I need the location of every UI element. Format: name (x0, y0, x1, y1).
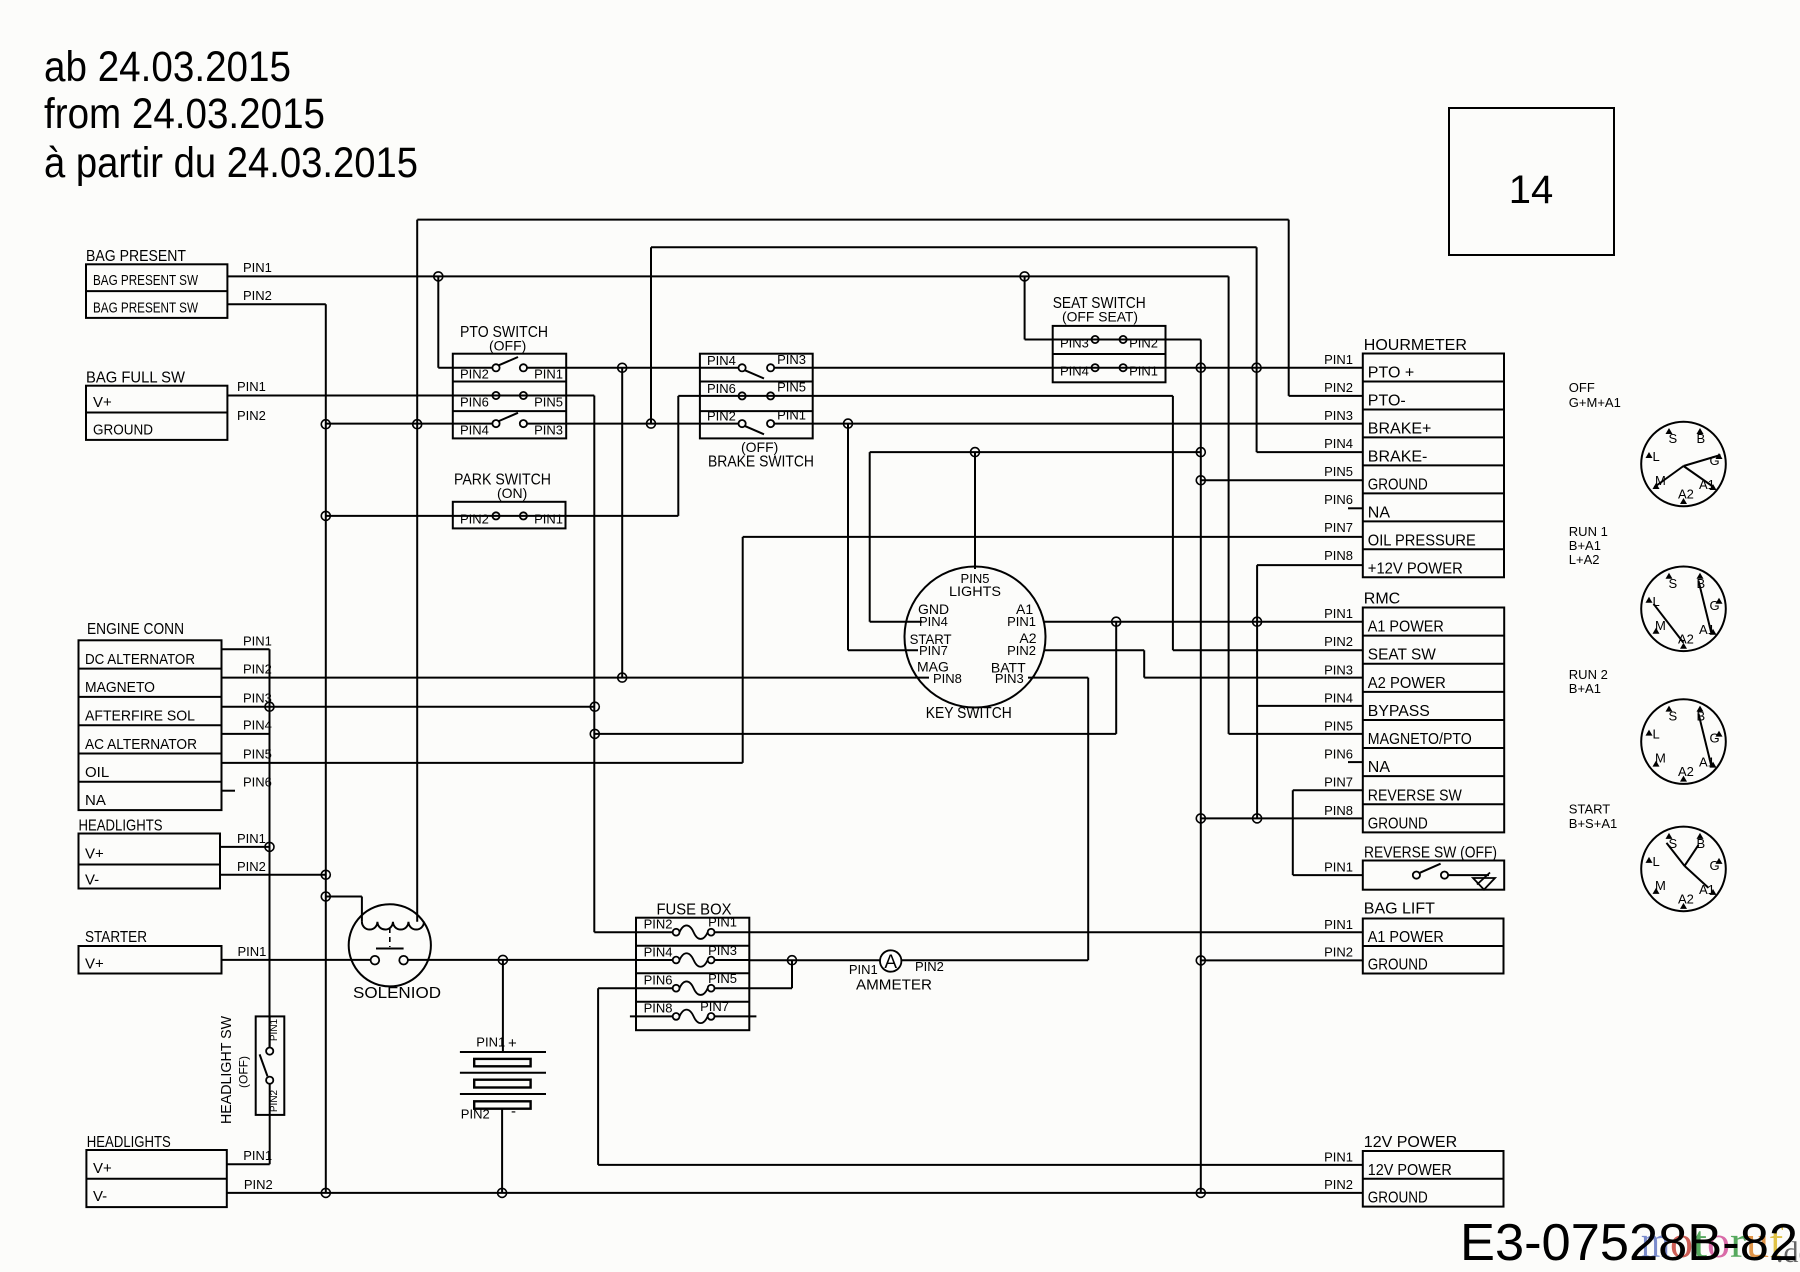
svg-text:PIN4: PIN4 (1060, 364, 1089, 379)
svg-text:PIN1: PIN1 (1324, 606, 1353, 621)
svg-text:L: L (1653, 449, 1660, 464)
svg-text:GROUND: GROUND (93, 422, 153, 439)
svg-text:PIN2: PIN2 (707, 409, 736, 424)
svg-text:PIN1: PIN1 (243, 634, 272, 649)
svg-text:PIN4: PIN4 (1324, 690, 1353, 705)
svg-text:PIN1: PIN1 (534, 512, 563, 527)
svg-text:PIN2: PIN2 (460, 512, 489, 527)
svg-text:PIN6: PIN6 (644, 973, 673, 988)
svg-text:12V POWER: 12V POWER (1364, 1134, 1457, 1151)
svg-text:BRAKE SWITCH: BRAKE SWITCH (708, 454, 814, 471)
svg-text:BAG PRESENT: BAG PRESENT (86, 248, 186, 265)
svg-text:PIN2: PIN2 (243, 288, 272, 303)
svg-text:KEY SWITCH: KEY SWITCH (926, 705, 1012, 722)
svg-text:PIN8: PIN8 (1324, 803, 1353, 818)
svg-text:PIN5: PIN5 (1324, 464, 1353, 479)
svg-text:PIN1: PIN1 (243, 1148, 272, 1163)
svg-text:PIN1: PIN1 (237, 379, 266, 394)
svg-text:PIN1: PIN1 (476, 1035, 505, 1050)
svg-text:from 24.03.2015: from 24.03.2015 (44, 90, 325, 138)
svg-text:BRAKE+: BRAKE+ (1368, 420, 1432, 437)
svg-text:AC ALTERNATOR: AC ALTERNATOR (85, 736, 197, 753)
svg-text:V-: V- (85, 872, 99, 889)
svg-text:PIN4: PIN4 (1324, 436, 1353, 451)
svg-text:B+A1: B+A1 (1569, 538, 1601, 553)
svg-text:PIN8: PIN8 (644, 1001, 673, 1016)
svg-text:14: 14 (1509, 168, 1554, 212)
svg-text:DC ALTERNATOR: DC ALTERNATOR (85, 651, 195, 668)
svg-text:PIN1: PIN1 (777, 408, 806, 423)
svg-text:BAG FULL SW: BAG FULL SW (86, 370, 186, 387)
svg-text:OFF: OFF (1569, 380, 1595, 395)
svg-text:NA: NA (85, 792, 106, 809)
svg-text:PIN5: PIN5 (534, 395, 563, 410)
svg-text:HEADLIGHTS: HEADLIGHTS (79, 818, 163, 835)
svg-text:RUN 1: RUN 1 (1569, 524, 1608, 539)
svg-text:MAGNETO: MAGNETO (85, 679, 155, 696)
svg-text:OIL PRESSURE: OIL PRESSURE (1368, 532, 1476, 549)
svg-text:SOLENIOD: SOLENIOD (353, 985, 441, 1002)
svg-text:LIGHTS: LIGHTS (949, 583, 1001, 599)
svg-text:PIN7: PIN7 (919, 643, 948, 658)
svg-text:PIN7: PIN7 (1324, 775, 1353, 790)
svg-text:(OFF SEAT): (OFF SEAT) (1062, 309, 1138, 325)
svg-text:REVERSE SW (OFF): REVERSE SW (OFF) (1364, 845, 1497, 862)
svg-text:PTO-: PTO- (1368, 392, 1406, 409)
svg-text:PTO +: PTO + (1368, 364, 1414, 381)
svg-text:PIN1: PIN1 (237, 831, 266, 846)
svg-text:L+A2: L+A2 (1569, 552, 1600, 567)
svg-text:PIN5: PIN5 (243, 747, 272, 762)
svg-text:PIN5: PIN5 (777, 380, 806, 395)
svg-text:+12V POWER: +12V POWER (1368, 560, 1463, 577)
svg-text:L: L (1653, 727, 1660, 742)
svg-text:BAG PRESENT SW: BAG PRESENT SW (93, 300, 199, 317)
svg-text:RMC: RMC (1364, 590, 1400, 607)
svg-text:BAG LIFT: BAG LIFT (1364, 901, 1435, 918)
svg-text:PIN3: PIN3 (1324, 408, 1353, 423)
svg-text:PIN4: PIN4 (644, 945, 673, 960)
svg-text:PIN4: PIN4 (460, 423, 489, 438)
svg-text:A2: A2 (1678, 764, 1694, 779)
svg-text:A1 POWER: A1 POWER (1368, 619, 1444, 636)
svg-text:PIN2: PIN2 (1007, 643, 1036, 658)
svg-text:PIN4: PIN4 (243, 718, 272, 733)
svg-text:V+: V+ (85, 956, 104, 973)
svg-text:PIN2: PIN2 (1324, 634, 1353, 649)
svg-text:B+S+A1: B+S+A1 (1569, 816, 1617, 831)
svg-text:(OFF): (OFF) (489, 338, 526, 354)
svg-text:PIN4: PIN4 (919, 614, 948, 629)
svg-text:A1 POWER: A1 POWER (1368, 929, 1444, 946)
svg-text:PIN2: PIN2 (243, 662, 272, 677)
svg-text:HEADLIGHTS: HEADLIGHTS (87, 1134, 171, 1151)
svg-text:GROUND: GROUND (1368, 957, 1428, 974)
svg-text:PIN3: PIN3 (1060, 336, 1089, 351)
svg-text:PIN1: PIN1 (1324, 917, 1353, 932)
svg-text:GROUND: GROUND (1368, 476, 1428, 493)
svg-text:PIN1: PIN1 (849, 962, 878, 977)
svg-text:12V POWER: 12V POWER (1368, 1162, 1452, 1179)
svg-text:B+A1: B+A1 (1569, 681, 1601, 696)
svg-text:PIN6: PIN6 (1324, 492, 1353, 507)
svg-text:BRAKE-: BRAKE- (1368, 448, 1428, 465)
svg-text:SEAT SW: SEAT SW (1368, 647, 1437, 664)
svg-text:NA: NA (1368, 759, 1391, 776)
svg-text:PIN1: PIN1 (243, 260, 272, 275)
svg-text:PIN1: PIN1 (238, 944, 267, 959)
svg-text:PIN2: PIN2 (915, 959, 944, 974)
svg-text:PIN1: PIN1 (1324, 352, 1353, 367)
svg-text:PIN2: PIN2 (237, 859, 266, 874)
svg-text:GROUND: GROUND (1368, 815, 1428, 832)
svg-text:PIN7: PIN7 (1324, 520, 1353, 535)
svg-text:PIN1: PIN1 (1324, 860, 1353, 875)
svg-text:(OFF): (OFF) (237, 1056, 251, 1088)
svg-text:PIN2: PIN2 (1324, 944, 1353, 959)
svg-text:V+: V+ (93, 1160, 112, 1177)
svg-text:V+: V+ (85, 846, 104, 863)
svg-text:ab 24.03.2015: ab 24.03.2015 (44, 43, 291, 91)
svg-text:PIN6: PIN6 (1324, 747, 1353, 762)
svg-text:STARTER: STARTER (85, 929, 147, 946)
svg-text:OIL: OIL (85, 764, 109, 781)
svg-text:E3-07528B-82: E3-07528B-82 (1460, 1214, 1798, 1272)
svg-text:HEADLIGHT SW: HEADLIGHT SW (218, 1015, 235, 1124)
svg-text:PIN5: PIN5 (708, 971, 737, 986)
svg-text:PIN2: PIN2 (237, 408, 266, 423)
svg-text:PIN3: PIN3 (708, 943, 737, 958)
svg-text:PIN2: PIN2 (461, 1107, 490, 1122)
svg-text:PIN2: PIN2 (1324, 380, 1353, 395)
svg-text:A2 POWER: A2 POWER (1368, 675, 1446, 692)
svg-text:BYPASS: BYPASS (1368, 703, 1430, 720)
svg-text:HOURMETER: HOURMETER (1364, 337, 1467, 354)
svg-text:-: - (511, 1103, 516, 1120)
svg-text:PIN8: PIN8 (1324, 548, 1353, 563)
svg-text:PIN3: PIN3 (777, 352, 806, 367)
svg-text:MAGNETO/PTO: MAGNETO/PTO (1368, 731, 1472, 748)
svg-text:PIN6: PIN6 (243, 775, 272, 790)
svg-text:PIN3: PIN3 (995, 671, 1024, 686)
svg-text:A: A (884, 952, 897, 973)
svg-text:PIN3: PIN3 (534, 423, 563, 438)
svg-text:PIN2: PIN2 (1324, 1177, 1353, 1192)
svg-text:AMMETER: AMMETER (856, 977, 932, 994)
svg-text:NA: NA (1368, 504, 1391, 521)
svg-text:PIN6: PIN6 (707, 381, 736, 396)
svg-text:PIN8: PIN8 (933, 671, 962, 686)
svg-text:GROUND: GROUND (1368, 1190, 1428, 1207)
svg-text:PIN7: PIN7 (700, 999, 729, 1014)
svg-text:PIN6: PIN6 (460, 395, 489, 410)
svg-text:L: L (1653, 854, 1660, 869)
svg-text:PIN4: PIN4 (707, 353, 736, 368)
svg-text:BAG PRESENT SW: BAG PRESENT SW (93, 272, 199, 289)
svg-text:à partir du 24.03.2015: à partir du 24.03.2015 (44, 139, 418, 187)
svg-text:PIN1: PIN1 (1129, 364, 1158, 379)
svg-text:A2: A2 (1678, 891, 1694, 906)
svg-text:ENGINE CONN: ENGINE CONN (87, 621, 184, 638)
svg-text:G+M+A1: G+M+A1 (1569, 395, 1621, 410)
svg-text:V-: V- (93, 1188, 107, 1205)
svg-text:(ON): (ON) (497, 485, 527, 501)
svg-text:PIN2: PIN2 (244, 1177, 273, 1192)
svg-text:REVERSE SW: REVERSE SW (1368, 787, 1463, 804)
svg-text:START: START (1569, 802, 1610, 817)
svg-text:PIN3: PIN3 (1324, 662, 1353, 677)
svg-text:+: + (508, 1035, 517, 1052)
svg-text:V+: V+ (93, 394, 112, 411)
svg-text:PIN1: PIN1 (708, 915, 737, 930)
svg-text:RUN 2: RUN 2 (1569, 667, 1608, 682)
svg-text:PIN1: PIN1 (1007, 614, 1036, 629)
svg-text:PIN1: PIN1 (1324, 1149, 1353, 1164)
svg-text:PIN2: PIN2 (1129, 336, 1158, 351)
svg-text:PIN5: PIN5 (1324, 718, 1353, 733)
svg-text:AFTERFIRE SOL: AFTERFIRE SOL (85, 708, 195, 725)
svg-text:A2: A2 (1678, 487, 1694, 502)
svg-text:PIN2: PIN2 (644, 917, 673, 932)
